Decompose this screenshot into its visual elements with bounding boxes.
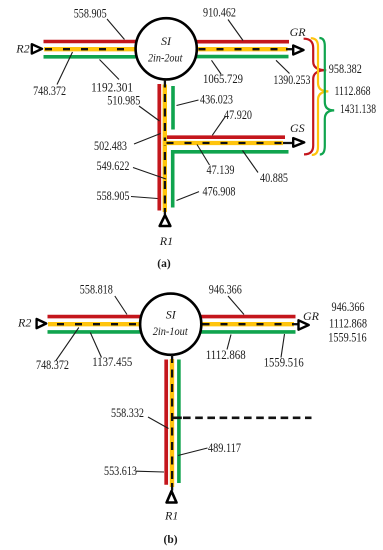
svg-text:1559.516: 1559.516 xyxy=(328,330,367,344)
svg-text:GR: GR xyxy=(290,25,307,39)
svg-text:2in-2out: 2in-2out xyxy=(148,51,183,65)
svg-text:SI: SI xyxy=(166,307,177,321)
svg-text:GS: GS xyxy=(290,121,305,135)
svg-text:(a): (a) xyxy=(157,258,171,270)
svg-text:436.023: 436.023 xyxy=(200,93,233,107)
svg-text:549.622: 549.622 xyxy=(97,159,130,173)
svg-text:946.366: 946.366 xyxy=(209,282,242,296)
svg-text:47.920: 47.920 xyxy=(224,108,252,122)
svg-text:R2: R2 xyxy=(15,42,29,56)
svg-text:748.372: 748.372 xyxy=(33,84,66,98)
svg-text:R1: R1 xyxy=(164,508,178,522)
svg-text:946.366: 946.366 xyxy=(332,300,365,314)
svg-text:(b): (b) xyxy=(164,534,178,546)
svg-text:1431.138: 1431.138 xyxy=(340,102,376,116)
svg-text:1065.729: 1065.729 xyxy=(203,72,243,86)
svg-text:1112.868: 1112.868 xyxy=(329,316,367,330)
svg-text:1390.253: 1390.253 xyxy=(273,73,310,87)
svg-text:558.818: 558.818 xyxy=(80,283,113,297)
svg-text:1192.301: 1192.301 xyxy=(91,80,133,94)
svg-text:510.985: 510.985 xyxy=(107,93,140,107)
svg-text:476.908: 476.908 xyxy=(203,184,236,198)
svg-text:553.613: 553.613 xyxy=(104,464,137,478)
svg-text:R1: R1 xyxy=(159,234,173,248)
svg-text:910.462: 910.462 xyxy=(203,6,236,20)
svg-text:1559.516: 1559.516 xyxy=(264,356,304,370)
svg-text:558.332: 558.332 xyxy=(111,406,144,420)
svg-text:R2: R2 xyxy=(17,316,31,330)
svg-text:1137.455: 1137.455 xyxy=(92,355,132,369)
svg-text:958.382: 958.382 xyxy=(329,62,362,76)
svg-text:GR: GR xyxy=(303,309,320,323)
svg-text:748.372: 748.372 xyxy=(36,358,69,372)
svg-text:SI: SI xyxy=(161,34,172,48)
svg-text:489.117: 489.117 xyxy=(208,441,241,455)
svg-text:1112.868: 1112.868 xyxy=(206,348,246,362)
svg-text:40.885: 40.885 xyxy=(260,171,288,185)
svg-text:558.905: 558.905 xyxy=(74,7,107,21)
svg-text:502.483: 502.483 xyxy=(94,139,127,153)
svg-text:1112.868: 1112.868 xyxy=(335,84,371,98)
svg-text:47.139: 47.139 xyxy=(207,163,235,177)
svg-text:558.905: 558.905 xyxy=(97,189,130,203)
svg-text:2in-1out: 2in-1out xyxy=(153,324,189,338)
